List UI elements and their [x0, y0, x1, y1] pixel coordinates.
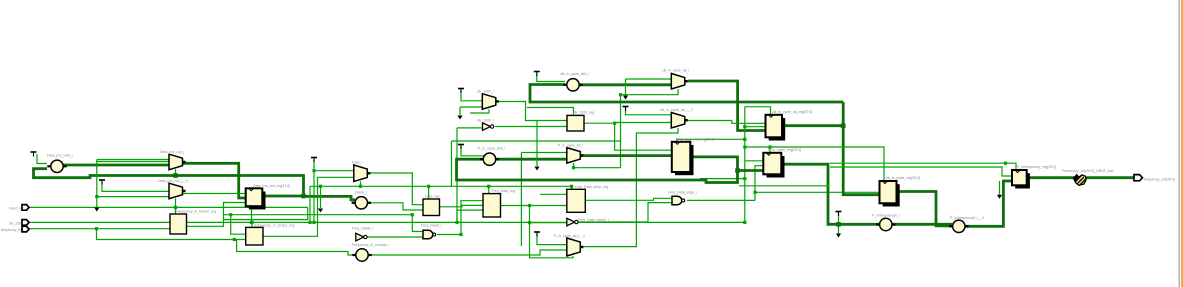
- register Frequency_in_temp1_reg: [246, 227, 263, 245]
- bus mux P_in_cycle_lat_i out to reg D: [580, 154, 672, 157]
- junction: [743, 177, 746, 180]
- label clk_100: [9, 222, 21, 226]
- wire vertical net frequency_in_temp: [96, 160, 98, 210]
- junction: [359, 185, 362, 188]
- label reset_n: [9, 207, 21, 211]
- wire tap: [739, 185, 828, 187]
- wire reg Freq_Data_temp_reg in1: [540, 193, 567, 195]
- svg-text:Freq_Data_reg: Freq_Data_reg: [492, 189, 516, 193]
- wire mux P_in_cycle_lat_i in1: [521, 152, 566, 154]
- wire stub to ground: [459, 107, 461, 115]
- wire to mux Data_i in1: [314, 170, 354, 172]
- register clk_in_cycle_lat_reg[29:0]: [766, 115, 786, 141]
- wire mux Data_i out to reg Data_reg: [367, 173, 423, 205]
- junction: [174, 206, 177, 209]
- wire enable riser: [451, 141, 453, 186]
- svg-text:Freq_Data_temp_reg: Freq_Data_temp_reg: [575, 185, 608, 189]
- svg-text:P_in_cycle_lat0_i: P_in_cycle_lat0_i: [478, 147, 505, 151]
- supply T P_in_cycle_lat: [458, 145, 464, 150]
- wire stub to ground: [999, 181, 1001, 195]
- wire Frequency_in_temp1 Q to mux Data_i: [263, 177, 354, 236]
- gate Freq_Data0_i: [423, 230, 436, 239]
- mux clk_in_cycle_lat_i__0: [671, 113, 688, 129]
- wire clock to reg Freq_Data_temp_reg: [571, 186, 573, 189]
- label frequency_in: [1, 228, 21, 232]
- wire clock to reg Freq_Data_reg: [488, 186, 490, 193]
- wire to mux clk_in_cycle_lat_i__0: [615, 122, 672, 124]
- svg-text:clk_in_cycle_lat_reg[29:0]: clk_in_cycle_lat_reg[29:0]: [772, 110, 812, 114]
- bus clk_in_cycle_lat feedback: [530, 85, 843, 103]
- register clk_in_cycle_reg[29:0]: [880, 181, 900, 207]
- junction: [411, 213, 414, 216]
- supply T Data_i: [311, 158, 317, 163]
- wire mux Data_j/xx_out_j__0 out to reg: [183, 193, 246, 195]
- register P_in/frequency_reg[29:0]: [1012, 170, 1030, 189]
- label Frequency_in_temp0_reg: [176, 210, 216, 214]
- junction: [743, 138, 746, 141]
- bus clk_in_cycle_lat to reg clk_in_cycle_reg D: [843, 102, 879, 195]
- wire mux clk_in_cycle_lat_i in1: [626, 78, 672, 80]
- svg-text:Frequency_in_temp0_reg: Frequency_in_temp0_reg: [176, 210, 216, 214]
- svg-text:clk_1000_i: clk_1000_i: [477, 119, 494, 123]
- wire mux P_in_cycle_lat_i select: [573, 163, 575, 168]
- wire mux P_in_cycle_lat_i__0 out to mux select net: [580, 128, 678, 247]
- junction: [768, 145, 771, 148]
- wire to gate Freq_Data0_i in1: [412, 215, 423, 232]
- svg-text:P_in/frequency0_i: P_in/frequency0_i: [872, 214, 900, 218]
- bus P_in_cycle_reg Q to gate P_in/frequency0_i: [781, 164, 880, 224]
- wire buffer Freq_Data0_i out to gate: [367, 236, 423, 238]
- label Frequency_in_temp1_reg: [255, 224, 295, 228]
- wire clock to reg clk_in_cycle_reg: [745, 147, 884, 181]
- junction: [487, 185, 490, 188]
- junction: [826, 184, 829, 187]
- bus P_in_cycle_lat to reg P_in_cycle_reg D: [738, 169, 764, 172]
- label Freq_Data_temp_reg: [575, 185, 608, 189]
- wire clk to reg Frequency_in_temp1_reg clock: [251, 222, 253, 227]
- junction: [753, 191, 756, 194]
- junction: [250, 221, 253, 224]
- wire mux clk_in_cycle_lat_i__0 out to reg: [685, 121, 766, 124]
- wire T through bus to ground: [838, 214, 840, 235]
- wire select rail to mux P_in_cycle_lat_i: [574, 167, 621, 169]
- gate (adder) Data_j/xx_out0_i: [47, 160, 66, 172]
- svg-text:clk_1000_i: clk_1000_i: [477, 90, 494, 94]
- label clk_in_cycle_lat0_i: [560, 72, 589, 76]
- wire Freq_Data Q down to mux select: [530, 206, 574, 258]
- label P_in/frequency0_i: [872, 214, 900, 218]
- svg-text:P_in/frequency0_i__0: P_in/frequency0_i__0: [950, 216, 984, 220]
- svg-text:P_in_cycle_lat_i__0: P_in_cycle_lat_i__0: [554, 234, 585, 238]
- register Data_j/xx_out_reg[31:0]: [246, 188, 266, 209]
- mux clk_1000_i: [482, 94, 499, 110]
- junction: [319, 185, 322, 188]
- junction: [572, 166, 575, 169]
- svg-text:Freq_Data_edge_i: Freq_Data_edge_i: [668, 191, 697, 195]
- input port reset_n: [22, 205, 29, 211]
- supply T clk_in_cycle_lat__0: [623, 107, 629, 112]
- wire Freq_Data Q to temp reg: [501, 205, 567, 207]
- wire net reset_n rail: [29, 206, 308, 208]
- label clk_in_cycle_reg[29:0]: [886, 176, 921, 180]
- svg-text:P_in/frequency_reg[29:0]: P_in/frequency_reg[29:0]: [1017, 165, 1056, 169]
- junction: [250, 221, 253, 224]
- gate (adder) Frequency_in_change_i: [352, 249, 371, 261]
- gate (adder) P_in/frequency0_i: [876, 218, 895, 230]
- wire stub: [700, 178, 745, 180]
- mux Data_j/xx_out_j__0: [169, 183, 186, 199]
- label P_in_cycle_lat_reg[29:0]: [676, 137, 714, 141]
- wire T to gate clk_in_cycle_lat0_i: [537, 74, 565, 82]
- wire to reg Freq_Data_reg in3: [457, 209, 483, 211]
- register P_in_cycle_lat_reg[29:0]: [672, 142, 694, 175]
- bus Data_j feedback to adder: [34, 169, 304, 196]
- wire clk to reg Data_j/xx_out_reg clock: [251, 206, 253, 222]
- wire buffer out to gate Freq_Data_edge_i in2: [576, 203, 672, 222]
- buffer Freq_Data0_i: [356, 233, 367, 241]
- svg-text:clk_in_cycle_lat_i: clk_in_cycle_lat_i: [662, 69, 689, 73]
- junction: [312, 169, 315, 172]
- svg-text:Freq_Data0_i: Freq_Data0_i: [352, 227, 373, 231]
- svg-text:clk_in_cycle_reg[29:0]: clk_in_cycle_reg[29:0]: [886, 176, 921, 180]
- junction mux select on bus: [173, 173, 178, 178]
- svg-text:Data_j/xx_out0_i: Data_j/xx_out0_i: [47, 154, 73, 158]
- wire CE to reg P_in/frequency_reg: [830, 167, 1012, 176]
- wire mux clk_1000_i select: [470, 109, 489, 113]
- junction: [459, 233, 462, 236]
- wire gate Data0_i out to reg Data_reg: [368, 203, 423, 210]
- wire reset branch rail: [224, 207, 308, 219]
- wire T to mux P_in_cycle_lat_i__0 in1: [537, 234, 567, 245]
- wire mux select / reg Frequency_in_temp0_reg clock: [175, 198, 177, 214]
- ground arrow left: [94, 208, 99, 212]
- svg-text:clk_in_cycle_lat0_i: clk_in_cycle_lat0_i: [560, 72, 589, 76]
- bus clk_in_cycle_reg Q to gate: [899, 192, 952, 226]
- wire Freq_Data_temp Q to gate Freq_Data_edge_i: [585, 198, 672, 200]
- register Data_reg: [423, 199, 440, 216]
- svg-text:Frequency_in_change_i: Frequency_in_change_i: [352, 243, 390, 247]
- junction: [1004, 162, 1007, 165]
- mux Data_j/xx_out_j: [169, 154, 186, 170]
- label Data_j/xx_out_j__0: [158, 179, 188, 183]
- wire mux clk_1000_i in2: [460, 106, 482, 108]
- wire mux Data_i select: [360, 181, 362, 186]
- wire clock to reg clk_1000_reg: [527, 108, 574, 116]
- svg-text:P_in_cycle_reg[29:0]: P_in_cycle_reg[29:0]: [768, 148, 801, 152]
- wire clk_1000 to reg P_in_cycle_lat_reg CE: [615, 123, 672, 150]
- wire stub vertical: [536, 121, 538, 166]
- gate (adder) P_in/frequency0_i__0: [949, 220, 968, 232]
- gate Freq_Data_edge_i: [672, 196, 685, 205]
- label P_in_cycle_lat_i__0: [554, 234, 585, 238]
- ground arrow clk_1000: [457, 116, 462, 120]
- junction: [619, 93, 622, 96]
- junction: [613, 122, 616, 125]
- wire T to mux Data_j/xx_out_j__0 in1: [102, 182, 169, 191]
- window edge orange line: [1181, 0, 1183, 287]
- wire vertical net: [520, 153, 522, 247]
- wire to mux Data_j/xx_out_j in: [97, 159, 169, 161]
- label Freq_Data_edge_i: [668, 191, 697, 195]
- svg-text:Data_reg: Data_reg: [425, 195, 439, 199]
- register P_in_cycle_reg[29:0]: [763, 153, 784, 178]
- label Freq_Data_edge0_i: [578, 218, 609, 222]
- wire clock to reg P_in_cycle_lat_reg: [677, 139, 745, 142]
- svg-text:Freq_Data_edge0_i: Freq_Data_edge0_i: [578, 218, 609, 222]
- wire T to gate P_in_cycle_lat0_i: [461, 147, 484, 156]
- junction clk_in_cycle_lat Q: [841, 123, 846, 128]
- wire clock to reg P_in/frequency_reg: [1006, 163, 1017, 170]
- gate (adder) clk_in_cycle_lat0_i: [563, 79, 582, 91]
- label P_in/frequency_reg[29:0]: [1017, 165, 1056, 169]
- wire temp net to gate Frequency_in_change_i: [237, 240, 356, 256]
- junction: [95, 227, 98, 230]
- buffer Freq_Data_edge0_i: [567, 218, 578, 226]
- svg-text:Data_j/xx_out_j: Data_j/xx_out_j: [160, 150, 184, 154]
- junction: [229, 213, 232, 216]
- label clk_1000_i: [477, 119, 494, 123]
- bus mux clk_in_cycle_lat_i out to reg D: [688, 81, 766, 131]
- gate (adder) Data0_i: [352, 197, 371, 209]
- wire T to mux clk_1000_i: [461, 91, 482, 101]
- bus clk_in_cycle_lat0_i out to mux: [580, 83, 671, 86]
- mux P_in_cycle_lat_i__0: [567, 238, 584, 256]
- label Freq_Data_reg: [492, 189, 516, 193]
- junction: [743, 125, 746, 128]
- wire T to mux clk_in_cycle_lat_i__0: [626, 108, 672, 115]
- wire mux clk_1000_i out to reg clk_1000_reg: [496, 102, 567, 121]
- supply T left: [99, 180, 105, 185]
- supply T clk_in_cycle_lat: [534, 72, 540, 77]
- junction: [427, 185, 430, 188]
- svg-text:Frequency_in_temp1_reg: Frequency_in_temp1_reg: [255, 224, 295, 228]
- label clk_in_cycle_lat_reg[29:0]: [772, 110, 812, 114]
- svg-text:clk_1000_reg: clk_1000_reg: [573, 111, 594, 115]
- label Freq_Data0_i: [352, 227, 373, 231]
- svg-text:P_in_cycle_lat_reg[29:0]: P_in_cycle_lat_reg[29:0]: [676, 137, 714, 141]
- window edge gray line: [1179, 0, 1180, 287]
- bus Data_j/xx_out_reg Q: [262, 195, 303, 198]
- wire to mux Data_j/xx_out_j__0 in: [97, 196, 169, 198]
- label clk_in_cycle_lat_i: [662, 69, 689, 73]
- wire to buffer Freq_Data_edge0_i: [530, 222, 567, 224]
- supply T clk_1000: [458, 89, 464, 94]
- register Frequency_in_temp0_reg: [170, 214, 187, 234]
- wire riser: [456, 210, 458, 222]
- label Data_j/xx_out_j: [160, 150, 184, 154]
- bus Data_j/xx_out0_i out to mux Data_j/xx_out_j: [63, 164, 169, 167]
- wire to reg Frequency_in_temp1_reg in1: [231, 215, 246, 235]
- ground arrow clk_in_cycle_lat: [623, 96, 628, 100]
- wire reg P_in_cycle_reg CE: [745, 160, 764, 162]
- wire clock tree riser: [744, 107, 746, 223]
- wire clk_1000_reg Q: [584, 122, 615, 124]
- supply T for Data_j carry: [31, 152, 37, 157]
- wire to buffer clk_1000_i: [457, 127, 483, 129]
- bus P_in_cycle_lat0_i out to mux P_in_cycle_lat_i: [496, 158, 567, 161]
- label P_in_cycle_lat0_i: [478, 147, 505, 151]
- wire clock to reg P_in_cycle_reg: [769, 147, 771, 153]
- wire net frequency_in: [29, 228, 170, 230]
- wire stub to ground: [320, 186, 322, 208]
- bus Data_j to gate Data0_i: [304, 196, 356, 199]
- junction: [455, 221, 458, 224]
- wire clock riser: [309, 186, 311, 222]
- wire mux clk_in_cycle_lat_i select: [621, 89, 679, 95]
- register clk_1000_reg: [567, 115, 584, 131]
- svg-text:P_in_cycle_lat_i: P_in_cycle_lat_i: [558, 144, 584, 148]
- svg-text:Frequency_out[29:0]_OBUF_inst: Frequency_out[29:0]_OBUF_inst: [1062, 169, 1113, 173]
- wire rail to gate Freq_Data0_i: [224, 214, 413, 216]
- wire frequency_in to reg Frequency_in_temp1_reg in2: [97, 229, 247, 240]
- ground arrow P_in/frequency_reg: [997, 195, 1002, 199]
- junction on P_in bus: [836, 222, 841, 227]
- svg-text:reset_n: reset_n: [9, 207, 21, 211]
- svg-text:Freq_Data0_i: Freq_Data0_i: [421, 224, 442, 228]
- mux clk_in_cycle_lat_i: [671, 74, 688, 90]
- label clk_1000_i: [477, 90, 494, 94]
- junction: [233, 238, 236, 241]
- label P_in/frequency0_i__0: [950, 216, 984, 220]
- wire reg Data_reg Q to reg Freq_Data_reg: [440, 205, 484, 206]
- input port clk_100: [22, 220, 29, 226]
- supply T P_in_cycle_lat__0: [534, 232, 540, 237]
- wire clock to reg Data_reg: [428, 186, 430, 199]
- wire clock rail right: [830, 162, 1006, 164]
- wire enable net horizontal: [452, 140, 621, 142]
- junction: [743, 221, 746, 224]
- ground arrow P_in bus: [836, 234, 841, 238]
- buffer clk_1000_i: [483, 123, 494, 131]
- mux Data_i: [354, 165, 371, 182]
- wire stub to ground: [625, 79, 627, 96]
- svg-text:Data0_i: Data0_i: [355, 191, 367, 195]
- wire CE net to reg clk_in_cycle_reg: [755, 191, 880, 193]
- bus clk_in_cycle_lat_reg Q: [782, 124, 843, 127]
- wire to mux Data_j/xx_out_j in2: [97, 161, 169, 163]
- junction: [528, 221, 531, 224]
- label Data_j/xx_out0_i: [47, 154, 73, 158]
- wire reg clk_in_cycle_lat_reg in2: [745, 126, 766, 128]
- label Data_reg: [425, 195, 439, 199]
- wire select net riser: [620, 95, 622, 168]
- junction: [570, 185, 573, 188]
- label Freq_Data0_i: [421, 224, 442, 228]
- wire net clk_100 rail: [29, 221, 745, 223]
- wire riser clk_1000 input: [456, 128, 458, 222]
- label Data_j/xx_out_reg[31:0]: [253, 184, 290, 188]
- register Freq_Data_reg: [483, 194, 501, 217]
- bus frequency0 out: [892, 223, 952, 226]
- gate (adder) P_in_cycle_lat0_i: [480, 153, 499, 165]
- svg-text:frequency_in: frequency_in: [1, 228, 21, 232]
- svg-text:frequency_out[29:0]: frequency_out[29:0]: [1144, 178, 1175, 182]
- label Data_i: [352, 161, 362, 165]
- svg-text:clk_in_cycle_lat_i__0: clk_in_cycle_lat_i__0: [660, 108, 693, 112]
- input port frequency_in: [22, 226, 29, 232]
- wire gate Freq_Data_edge_i out: [687, 199, 755, 201]
- junction Data_j Q: [301, 194, 306, 199]
- svg-text:Data_j/xx_out_reg[31:0]: Data_j/xx_out_reg[31:0]: [253, 184, 290, 188]
- svg-text:Data_i: Data_i: [352, 161, 362, 165]
- wire mux Data_j/xx_out_j select: [175, 169, 177, 175]
- label clk_1000_reg: [573, 111, 594, 115]
- wire buffer clk_1000_i out to reg: [495, 126, 567, 128]
- mux P_in_cycle_lat_i: [567, 148, 584, 164]
- mouse hand cursor: [1073, 174, 1086, 185]
- bus P_in_cycle_lat feedback: [457, 157, 738, 183]
- label P_in_cycle_lat_i: [558, 144, 584, 148]
- label Frequency_in_change_i: [352, 243, 390, 247]
- wire clock to reg clk_in_cycle_lat_reg: [745, 107, 771, 115]
- wire Frequency_in_temp0 Q to reg Data_j/xx_out_reg: [187, 203, 246, 227]
- wire clock rail upper: [310, 185, 574, 187]
- junction: [308, 221, 311, 224]
- bus gate out to reg P_in/frequency_reg D: [965, 181, 1012, 226]
- wire T to Data_j/xx_out0_i carry-in: [37, 154, 47, 164]
- ground arrow P_in_cycle: [534, 167, 539, 171]
- junction: [312, 221, 315, 224]
- label P_in_cycle_reg[29:0]: [768, 148, 801, 152]
- wire gate Frequency_in_change_i out to mux P_in_cycle_lat_i__0: [369, 250, 567, 255]
- junction: [528, 204, 531, 207]
- register Freq_Data_temp_reg: [567, 189, 586, 212]
- ground arrow: [318, 209, 323, 213]
- label clk_in_cycle_lat_i__0: [660, 108, 693, 112]
- bus frequency_out to output port: [1030, 176, 1135, 179]
- wire T net vertical: [313, 160, 315, 223]
- bus mux Data_j/xx_out_j out to reg D: [183, 163, 246, 198]
- svg-text:Data_j/xx_out_j__0: Data_j/xx_out_j__0: [158, 179, 188, 183]
- junction P_in_cycle_lat Q: [735, 168, 740, 173]
- wire CE net riser: [755, 166, 763, 201]
- wire gate Freq_Data0_i out to reg Freq_Data_reg: [437, 201, 483, 235]
- label frequency_out[29:0]: [1144, 178, 1175, 182]
- supply T P_in/frequency: [836, 212, 842, 217]
- junction: [95, 195, 98, 198]
- junction: [743, 145, 746, 148]
- label Data0_i: [355, 191, 367, 195]
- output port frequency_out[29:0]: [1134, 175, 1143, 181]
- label OBUF inst: [1062, 169, 1113, 173]
- svg-text:clk_100: clk_100: [9, 222, 21, 226]
